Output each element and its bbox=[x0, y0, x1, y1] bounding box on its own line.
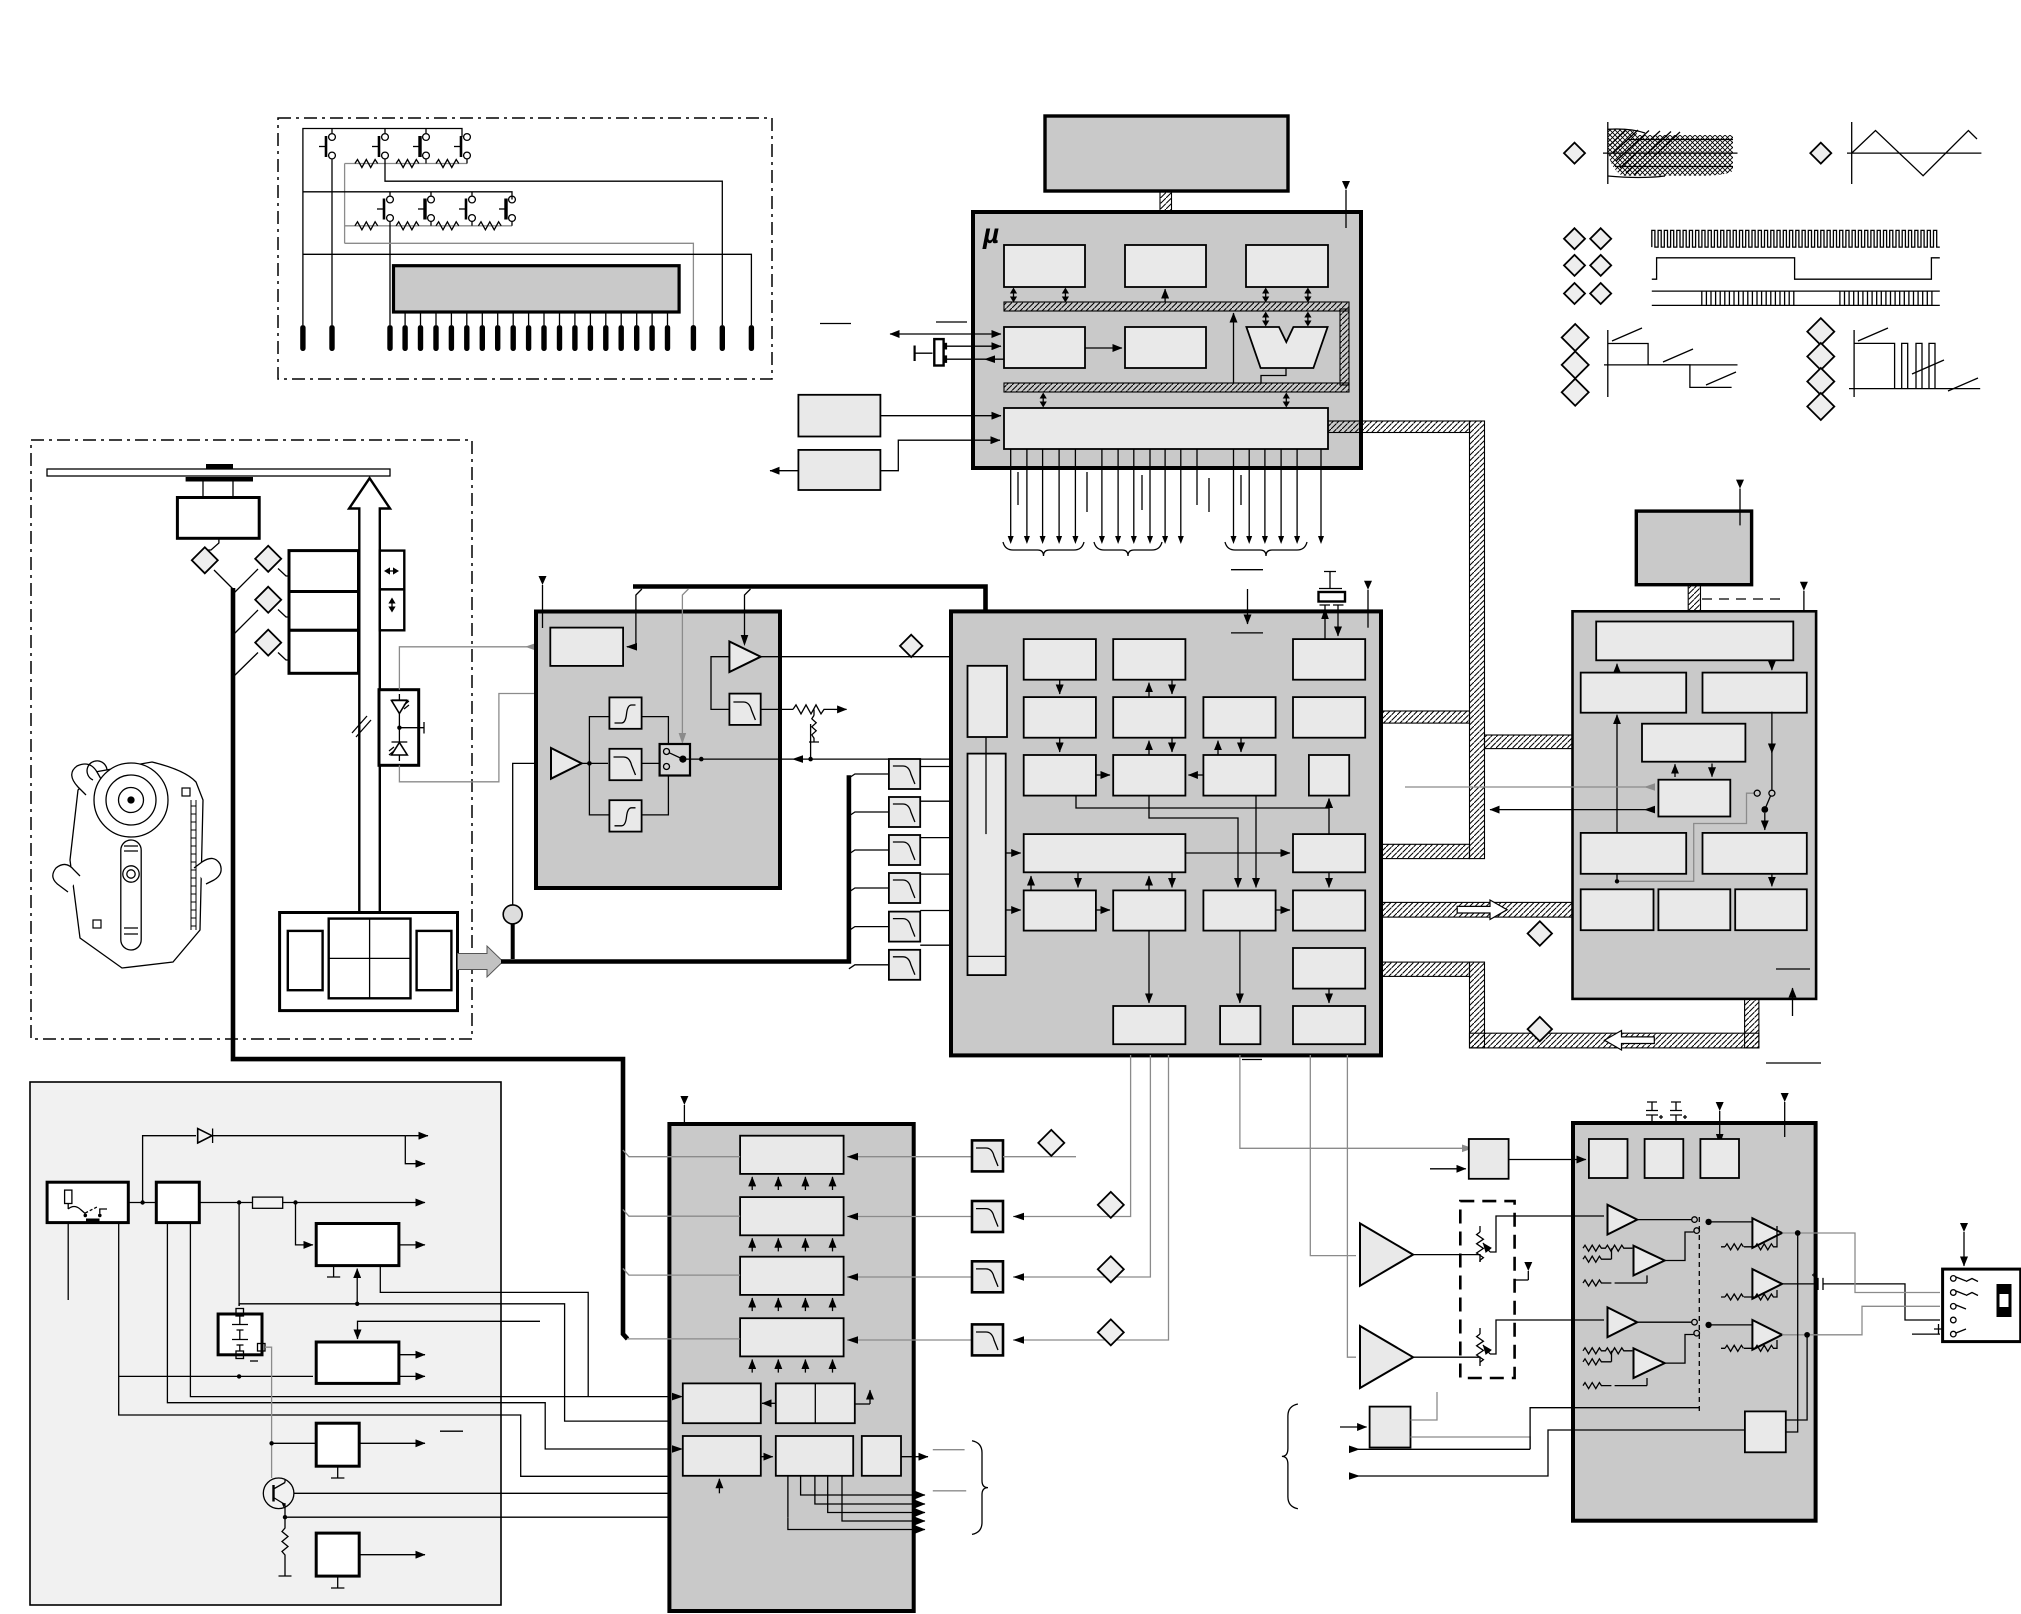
wire: A2 feedback to filter bbox=[711, 657, 729, 710]
legend: EFM burst ticks bbox=[1702, 291, 1932, 305]
scrub line near B2 outputs bbox=[933, 1490, 966, 1492]
resistor R2 bbox=[396, 160, 419, 168]
wire: transformer lead 2 to driver RB1 bbox=[167, 1223, 679, 1449]
decoder / servo IC block bbox=[1573, 611, 1817, 999]
arrow: interface to timer bbox=[1085, 347, 1122, 349]
actuator box: horizontal bbox=[380, 551, 405, 590]
small arrowheads on port lines bbox=[1008, 536, 1324, 544]
wire: battery net to rect1 bottom and driver bbox=[239, 1203, 683, 1422]
laser / monitor diode box bbox=[379, 690, 424, 766]
wire: row1 switch top drops bbox=[332, 129, 426, 134]
wire: common rail to pin24 bbox=[303, 254, 752, 325]
scrub dash in PSU bbox=[440, 1430, 463, 1432]
wire: switch output to DSP bbox=[686, 758, 1021, 760]
legend: staircase slashes bbox=[1612, 328, 1736, 385]
DSP row3: error corr 2 bbox=[1113, 755, 1185, 796]
deemphasis amp B2 bbox=[1634, 1348, 1665, 1378]
legend: triangle waveform bbox=[1852, 131, 1977, 176]
switch SW3 bbox=[413, 134, 429, 159]
DSP / decoder main block bbox=[951, 611, 1381, 1055]
wire: B3 output bbox=[901, 1456, 928, 1458]
scrub dash at micro left edge bbox=[936, 321, 967, 323]
dashed select line bbox=[1698, 1217, 1700, 1411]
wire: PSU line up into B1 bbox=[718, 1479, 720, 1494]
audio op-amp A4 bbox=[1608, 1307, 1638, 1337]
scrub dash below DSP bbox=[1242, 1059, 1262, 1061]
display pin stubs bbox=[405, 312, 667, 325]
svg-text:µ: µ bbox=[982, 218, 999, 249]
wire: Q1 base/collector to driver bbox=[294, 1492, 720, 1494]
wire: supply arrow into DSP top bbox=[1247, 589, 1249, 624]
legend: eye-pattern (crosshatch band) bbox=[1608, 129, 1733, 177]
legend: fast clock waveform bbox=[1652, 230, 1940, 247]
bus: upper internal data bus bbox=[1004, 302, 1349, 311]
arrowheads on PSU feeds bbox=[672, 1393, 683, 1401]
mux / driver trapezoid bbox=[1246, 327, 1327, 368]
filter boxes right of driver bbox=[972, 1140, 1003, 1355]
scrub dash left of micro bbox=[820, 323, 851, 325]
sled block bbox=[289, 630, 359, 673]
sled feed arrow (outline) bbox=[349, 478, 390, 933]
legend: kick pulse waveform bbox=[1854, 343, 1895, 388]
scrub ticks next to port lines bbox=[1018, 472, 1241, 512]
arrows: port to lower bus bbox=[1040, 393, 1047, 408]
test diamond: spindle drive bbox=[192, 547, 218, 573]
actuator box: vertical bbox=[380, 589, 405, 630]
driver: focus drive amp bbox=[740, 1136, 844, 1174]
slicer block B3 (S-curve) bbox=[609, 800, 641, 831]
switch SW6 bbox=[418, 196, 434, 221]
crystal X2 bbox=[1319, 572, 1346, 640]
wires: filters to DSP inputs bbox=[920, 767, 964, 946]
wire: bus drop to servo switch bbox=[682, 589, 688, 742]
servo mode switch bbox=[660, 744, 690, 776]
DSP row5: DAC interface bbox=[1203, 890, 1275, 930]
wire: connector input line bottom bbox=[1912, 1333, 1940, 1335]
servo processor block bbox=[536, 612, 780, 889]
wire: A2 to connector R bbox=[1782, 1233, 1940, 1293]
decoder: row2 right block bbox=[1703, 673, 1807, 713]
DSP row2: demod bbox=[1024, 697, 1096, 738]
wire: AC box bottom stub bbox=[67, 1223, 69, 1300]
wire: power detect to port bbox=[880, 440, 1000, 471]
decoder: control small block bbox=[1658, 780, 1730, 817]
wire: SW6/SW7/SW8 bottoms bbox=[431, 221, 512, 225]
driver: logic block B1 bbox=[683, 1436, 761, 1476]
wire: mute line 2 bbox=[1349, 1430, 1745, 1476]
focus coil block bbox=[289, 551, 359, 592]
wire: regulator1 output bbox=[399, 1244, 425, 1246]
ground: regulator1 bbox=[327, 1266, 340, 1277]
legend: EFM burst rails bbox=[1652, 291, 1940, 305]
resistor ladder B1 bbox=[1583, 1245, 1647, 1286]
resistor R1 bbox=[355, 160, 378, 168]
power flag: connector bbox=[1960, 1223, 1968, 1266]
decoder mode switch bbox=[1754, 790, 1775, 813]
wires into control block bbox=[1405, 786, 1654, 788]
resistor pair A2 bbox=[1721, 1226, 1777, 1250]
DSP bottom: mute logic bbox=[1220, 1006, 1260, 1044]
wire: ampR to pot2 bbox=[1413, 1357, 1480, 1362]
interface block bbox=[1004, 327, 1085, 368]
wire: mute line 1 bbox=[1349, 1448, 1530, 1450]
DSP R44 block bbox=[1293, 834, 1365, 872]
wires: mute drive outputs bbox=[1411, 1392, 1531, 1449]
DSP row5: out latch bbox=[1293, 890, 1365, 930]
decoder: row2 left block bbox=[1581, 673, 1687, 713]
regulator block 1 bbox=[316, 1224, 399, 1266]
test diamond: tracking drive bbox=[255, 587, 281, 613]
wire: switch line up-join bbox=[810, 724, 812, 759]
bus D: DSP to decoder lower loop bbox=[1381, 962, 1470, 976]
wire: AC box to transformer bbox=[128, 1202, 156, 1204]
wires: driver outputs to flex cable (gray) bbox=[623, 1150, 740, 1339]
wire: fused rail out bbox=[283, 1202, 425, 1204]
thick RF/serial bus along top of servo bbox=[633, 587, 986, 666]
bus C: DSP to decoder bottom-left bbox=[1381, 902, 1581, 917]
driver: spindle drive amp bbox=[740, 1318, 844, 1356]
wires: driver feedback inputs from filters bbox=[847, 1157, 972, 1340]
bus: lower internal data bus bbox=[1004, 383, 1349, 392]
DSP row3: deinterleave bbox=[1203, 755, 1275, 796]
arrow: RAM to bus bbox=[1164, 289, 1166, 302]
RF amp block bbox=[550, 628, 623, 666]
RC network: filter reference bbox=[761, 705, 847, 742]
wire: key matrix row 2 top rail bbox=[303, 192, 512, 200]
microcontroller U1 block bbox=[973, 212, 1361, 468]
ground: S1 bbox=[331, 1466, 344, 1478]
disc platter bbox=[47, 469, 390, 476]
wire: raw DC rail with diode bbox=[143, 1136, 196, 1203]
wire: bus drop to error amp top bbox=[745, 589, 751, 640]
regulator block 2 bbox=[316, 1342, 399, 1383]
driver: logic block A2 (double) bbox=[762, 1383, 870, 1423]
audio DAC / output block bbox=[1573, 1123, 1816, 1521]
wire: motor to diamond bbox=[206, 538, 219, 550]
tracking coil block bbox=[289, 592, 359, 631]
scrub line below decoder bbox=[1766, 1062, 1821, 1064]
legend: eye-pattern axes bbox=[1603, 122, 1738, 184]
RF test point circle bbox=[503, 763, 548, 959]
resistor R7 bbox=[478, 222, 501, 230]
test diamond: sled drive bbox=[255, 630, 281, 656]
power flag: servo supply bbox=[539, 576, 547, 628]
decoder: row4 blocks bbox=[1581, 889, 1654, 930]
display module bbox=[394, 266, 680, 312]
switch SW7 bbox=[459, 196, 475, 221]
wire: B2 out to switch bbox=[642, 762, 660, 764]
legend: tracking-error diamond bbox=[1810, 143, 1831, 164]
display box above decoder bbox=[1636, 511, 1751, 585]
legend: sled diamonds column bbox=[1807, 318, 1834, 345]
resistor R5 bbox=[396, 222, 419, 230]
RF out block arrow (gray) bbox=[458, 946, 504, 977]
wire: trapezoid to lower bus bbox=[1261, 368, 1286, 383]
keyboard / display panel enclosure bbox=[278, 118, 772, 379]
legend: gate waveform bbox=[1652, 258, 1940, 279]
bus: micro to decoder (hatched, to right and down) bbox=[1328, 421, 1470, 433]
headphone amp A3 bbox=[1752, 1269, 1782, 1299]
decoder: command register (long) bbox=[1596, 622, 1793, 661]
wire: SW1 bottom to pin2 bbox=[331, 159, 333, 325]
brace: mute control group bbox=[1282, 1404, 1298, 1509]
filter block B2 (low-pass) bbox=[609, 749, 641, 780]
ground: S2 bbox=[331, 1576, 344, 1588]
wire: mute verticals bbox=[1786, 1231, 1810, 1432]
wire: B2 out to switch2 lower contact bbox=[1665, 1335, 1694, 1364]
DSP row5: digital filter bbox=[1113, 890, 1185, 930]
bus: display to microcontroller (hatched) bbox=[1160, 191, 1172, 244]
dashed wire right of bus bbox=[1702, 598, 1784, 600]
DSP bottom: audio out latch bbox=[1293, 1006, 1365, 1044]
wire: row1 ladder rail (gray) bbox=[345, 163, 467, 165]
disc hub bbox=[206, 464, 233, 469]
wire: bit clock to square1 bbox=[1509, 1159, 1586, 1161]
resistor R4 bbox=[355, 222, 378, 230]
white arrow in bus C bbox=[1457, 900, 1507, 920]
line out amp A2 bbox=[1752, 1218, 1782, 1248]
wire: ladder left leg down (gray) bbox=[344, 164, 346, 244]
wire: diode rail outputs bbox=[213, 1135, 406, 1137]
resistor R8 (emitter) bbox=[279, 1517, 292, 1576]
arrows: bus to trapezoid bbox=[1262, 312, 1269, 327]
DSP row1: osc block bbox=[1293, 639, 1365, 680]
wire: S1 output bbox=[359, 1442, 425, 1444]
wire: ampL to pot1 bbox=[1413, 1255, 1480, 1262]
resistor R6 bbox=[436, 222, 459, 230]
crystal X1 bbox=[915, 339, 946, 365]
decoder feedback wire (gray) bbox=[1615, 793, 1754, 883]
data slicer column (tall B) bbox=[968, 754, 1006, 976]
test diamond: focus drive bbox=[255, 546, 281, 572]
legend: staircase diamonds column bbox=[1562, 324, 1589, 351]
power flag: audio reference bbox=[1716, 1102, 1724, 1145]
audio: reference square 1 bbox=[1589, 1139, 1628, 1178]
test diamond: sled feedback bbox=[1098, 1256, 1124, 1282]
wire: lower bus up-arrow bbox=[1233, 313, 1235, 383]
switch SW2 bbox=[372, 134, 388, 159]
arrows: CPU to bus bbox=[1262, 288, 1269, 303]
wire: B1 out to switch bbox=[642, 717, 669, 744]
DAC output amp L (big) bbox=[1360, 1223, 1413, 1285]
CD mechanism enclosure bbox=[31, 440, 472, 1039]
legend: staircase waveform bbox=[1608, 344, 1732, 388]
decoder internal arrows bbox=[1617, 660, 1772, 886]
power flag: driver supply bbox=[680, 1096, 688, 1135]
driver: logic block A1 bbox=[683, 1383, 761, 1423]
decoupling capacitor C2 bbox=[1670, 1102, 1687, 1123]
DSP bottom: motor driver logic bbox=[1113, 1006, 1185, 1044]
I/O port register bbox=[1004, 408, 1328, 449]
DSP small block R34 bbox=[1309, 755, 1349, 796]
wire: bus drop to RF amp bbox=[627, 589, 642, 647]
motor driver block bbox=[669, 1124, 913, 1611]
DSP row3: error corr 1 bbox=[1024, 755, 1096, 796]
deemphasis switch 2 bbox=[1637, 1319, 1752, 1336]
wire: row2 ladder rail (gray) bbox=[345, 225, 512, 227]
test diamond: error monitor bbox=[900, 635, 922, 657]
deemphasis amp B1 bbox=[1634, 1246, 1665, 1276]
wire: A5 to connector L bbox=[1782, 1306, 1940, 1335]
switch SW1 bbox=[319, 134, 335, 159]
arrows: ROM to bus bbox=[1010, 288, 1017, 303]
wire: into mute drive bbox=[1340, 1426, 1367, 1428]
wire: B1 out to switch1 lower contact bbox=[1665, 1232, 1694, 1261]
wire: SW3 / SW4 bottoms to ladder bbox=[426, 159, 467, 164]
flex cable (thick) to bottom bbox=[233, 588, 628, 1339]
test diamond: bus D bbox=[1528, 1017, 1552, 1041]
decoupling capacitor C1 bbox=[1646, 1102, 1663, 1123]
shaft break marks bbox=[352, 716, 371, 737]
wires: B2 status outputs bbox=[788, 1476, 925, 1530]
potentiometer VR1 bbox=[1477, 1216, 1604, 1262]
legend: clock diamond pair rows bbox=[1564, 228, 1585, 249]
power supply block bbox=[30, 1082, 501, 1605]
spindle motor M1 bbox=[177, 498, 259, 539]
wire: AC box net to regulator2 and driver bbox=[119, 1223, 683, 1477]
power flag: audio supply bbox=[1781, 1093, 1789, 1137]
switch SW8 bbox=[499, 196, 515, 221]
wire: B3 out to switch bbox=[642, 776, 669, 815]
test diamond: spindle feedback bbox=[1098, 1319, 1124, 1345]
wire: key matrix row 1 top rail bbox=[303, 129, 462, 326]
wire: reg1 sense down-right to driver RA1 (long) bbox=[380, 1266, 588, 1397]
bus: display to decoder (hatched) bbox=[1688, 585, 1700, 624]
driver: logic block B2 bbox=[776, 1436, 853, 1476]
wire: remote input to interface bbox=[890, 333, 1001, 335]
wire: Q1 emitter junction to driver bbox=[283, 1508, 788, 1519]
wire: XOUT bbox=[947, 358, 1004, 360]
brace: driver status signals bbox=[972, 1441, 988, 1535]
wire: input to bit clock block bbox=[1430, 1168, 1466, 1170]
scrub dash inside decoder bbox=[1776, 968, 1810, 970]
arrow: B1 to B2 bbox=[761, 1456, 773, 1458]
turntable bar bbox=[186, 477, 253, 482]
bus A: DSP to decoder mid (hatched) bbox=[1381, 711, 1470, 723]
connector pins row bbox=[300, 325, 754, 351]
power flag: DSP supply bbox=[1364, 581, 1372, 628]
legend: triangle wave axes bbox=[1847, 122, 1981, 184]
potentiometer VR2 bbox=[1477, 1320, 1604, 1366]
resistor pair A5 bbox=[1721, 1340, 1777, 1351]
sync detect block (tall A) bbox=[968, 666, 1008, 737]
wire: SW2 bottom to far-right pin22 bbox=[385, 159, 722, 325]
power flag: micro supply bbox=[1342, 181, 1350, 228]
decoder below-block arrow bbox=[1792, 988, 1794, 1016]
optical pickup sled drawing bbox=[53, 761, 221, 968]
wire: reset to port bbox=[880, 415, 1001, 417]
white arrow in bus D bbox=[1604, 1031, 1654, 1051]
ground dashes above DSP bbox=[1231, 570, 1263, 633]
wire: photodiode top loop to servo (gray) bbox=[399, 647, 619, 690]
photodetector block bbox=[280, 913, 458, 1011]
brace group 1 under micro bbox=[1003, 542, 1084, 556]
driver: logic block B3 bbox=[862, 1436, 901, 1476]
input op-amp A1 bbox=[551, 748, 582, 779]
test diamond: bus C bbox=[1528, 921, 1552, 945]
power flag: pot bias bbox=[1514, 1262, 1532, 1280]
filter block B4 (low-pass) bbox=[729, 694, 760, 725]
power flag: decoder display bbox=[1736, 480, 1744, 526]
legend: kick pulse slashes bbox=[1858, 328, 1978, 391]
test diamond: tracking feedback bbox=[1098, 1192, 1124, 1218]
micro port pin stubs bbox=[1011, 449, 1321, 536]
reset block bbox=[798, 395, 880, 437]
RAM block bbox=[1125, 245, 1206, 287]
wire: rail to regulator 1 bbox=[296, 1203, 314, 1245]
line out amp A5 bbox=[1752, 1320, 1782, 1350]
wire: regulator2 top input bbox=[358, 1321, 541, 1339]
legend: kick pulse axes bbox=[1849, 330, 1980, 397]
wire: transformer lead to driver RA1 bbox=[190, 1223, 679, 1397]
scrub line: B3 output label bbox=[933, 1449, 965, 1451]
display box above microcontroller bbox=[1045, 116, 1288, 191]
spindle shaft bbox=[203, 482, 233, 498]
DSP R64 block bbox=[1293, 948, 1365, 989]
DSP row1: PLL block bbox=[1024, 639, 1096, 680]
wires: RF line taps to filters bbox=[849, 774, 889, 969]
power detect block bbox=[798, 450, 880, 490]
error amp A2 bbox=[729, 642, 760, 673]
volume pot assembly (dashed) bbox=[1460, 1201, 1514, 1378]
resistor ladder B2 bbox=[1583, 1348, 1647, 1389]
decoder: row3 right block bbox=[1703, 833, 1807, 874]
driver: sled drive amp bbox=[740, 1257, 844, 1295]
bit clock block left of audio bbox=[1469, 1139, 1509, 1179]
wire: gray common to pin21 bbox=[345, 243, 694, 325]
audio: reference square 2 bbox=[1645, 1139, 1684, 1178]
diode D1 bbox=[198, 1129, 213, 1144]
wires: DSP bottom outputs (gray) bbox=[1013, 1055, 1465, 1357]
deemphasis switch 1 bbox=[1637, 1217, 1752, 1234]
mute drive block (outside) bbox=[1370, 1407, 1411, 1448]
AC inlet box bbox=[47, 1182, 128, 1222]
brace group 2 under micro bbox=[1094, 542, 1162, 556]
switch block S1 bbox=[316, 1423, 359, 1466]
wire: A1 output fan bbox=[582, 717, 610, 815]
ROM block bbox=[1004, 245, 1085, 287]
DSP internal arrows bbox=[986, 680, 1329, 1003]
decoder: serial interface mid block bbox=[1642, 724, 1745, 762]
wire: S1 input bbox=[272, 1442, 317, 1444]
wire: filter1 line and test diamond bbox=[1003, 1156, 1076, 1158]
switch SW5 bbox=[377, 196, 393, 221]
transistor Q1 bbox=[263, 1478, 294, 1509]
brace group 3 under micro bbox=[1225, 542, 1307, 556]
cap C3 at A3 output bbox=[1782, 1273, 1940, 1320]
fuse F1 bbox=[253, 1197, 283, 1208]
DSP row2: EFM decode bbox=[1113, 697, 1185, 738]
resistor R3 bbox=[436, 160, 459, 168]
switch block S2 bbox=[316, 1533, 359, 1576]
decoder: row3 left block bbox=[1581, 833, 1687, 874]
wire: XIN bbox=[947, 345, 1001, 347]
wire: photodiode bottom loop to servo (gray) bbox=[399, 669, 586, 782]
mute control block bbox=[1745, 1411, 1786, 1452]
transformer box bbox=[156, 1182, 199, 1222]
bus: right leg of internal bus bbox=[1340, 309, 1349, 385]
RF thick line to filters bbox=[501, 775, 849, 961]
DAC output amp R (big) bbox=[1360, 1326, 1413, 1388]
wire: regulator2 outputs bbox=[399, 1354, 425, 1356]
audio: reference square 3 bbox=[1700, 1139, 1739, 1178]
CPU block bbox=[1246, 245, 1328, 287]
headphone / line connector box bbox=[1934, 1269, 2021, 1342]
driver input up-arrows bbox=[752, 1177, 832, 1373]
DSP row1: clock gen bbox=[1113, 639, 1185, 680]
slicer block B1 (S-curve) bbox=[609, 697, 641, 728]
legend: eye-pattern test point diamond bbox=[1564, 143, 1585, 164]
